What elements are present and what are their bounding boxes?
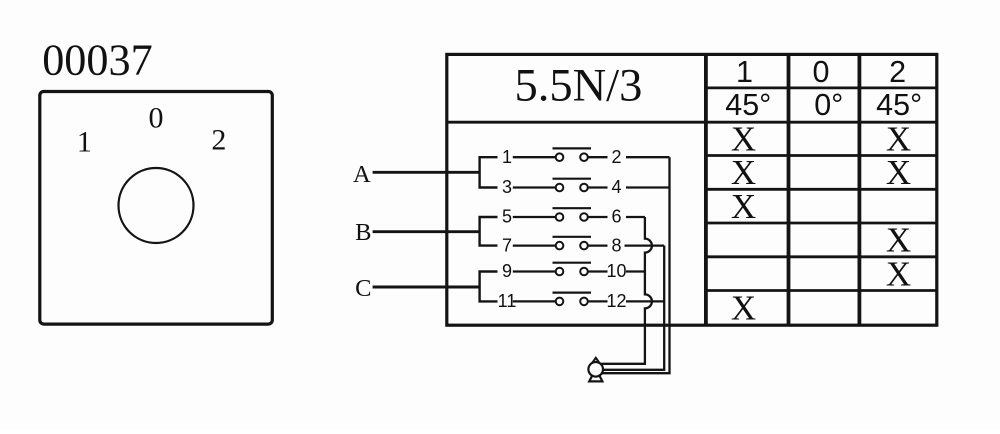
svg-text:12: 12 — [606, 291, 626, 311]
svg-text:2: 2 — [611, 147, 621, 167]
contact row 4 wires — [513, 237, 664, 246]
svg-text:C: C — [355, 275, 371, 302]
svg-text:2: 2 — [889, 55, 906, 89]
contact circles row 5 — [556, 268, 588, 276]
svg-text:10: 10 — [606, 261, 626, 281]
table column line between 0 and 2 — [858, 54, 862, 325]
svg-text:4: 4 — [611, 177, 621, 197]
bracket phase C to terminals 9 and 11 — [480, 272, 498, 302]
table header bottom line — [447, 121, 937, 124]
contact row 1 wires — [513, 148, 670, 157]
phase A feed wire — [373, 171, 480, 174]
svg-text:00037: 00037 — [42, 35, 152, 84]
svg-text:X: X — [731, 289, 756, 328]
contact circles row 6 — [556, 298, 588, 306]
contact row 2 wires — [513, 179, 670, 188]
bracket phase A to terminals 1 and 3 — [480, 157, 498, 187]
svg-text:5: 5 — [502, 207, 512, 227]
svg-text:X: X — [886, 254, 911, 293]
contact row 5 wires — [513, 263, 645, 272]
svg-text:45°: 45° — [876, 88, 922, 122]
contact circles row 1 — [556, 153, 588, 161]
svg-text:5.5N/3: 5.5N/3 — [514, 61, 642, 112]
table row line 1 — [706, 154, 937, 157]
svg-text:1: 1 — [502, 147, 512, 167]
table row line 4 — [706, 255, 937, 258]
svg-text:A: A — [353, 161, 371, 188]
table row line 5 — [706, 289, 937, 292]
contact row 3 wires — [513, 208, 645, 217]
svg-text:1: 1 — [77, 125, 92, 158]
bracket phase B to terminals 5 and 7 — [480, 217, 498, 246]
svg-text:X: X — [886, 153, 911, 192]
svg-text:9: 9 — [502, 261, 512, 281]
front panel square outline — [40, 92, 272, 325]
svg-text:0: 0 — [149, 102, 164, 135]
svg-text:1: 1 — [736, 55, 753, 89]
svg-text:45°: 45° — [725, 88, 771, 122]
phase C feed wire — [373, 286, 480, 289]
switch table outer border — [447, 54, 937, 325]
output bus from terminals 6 and 10 with hops over rows 8 and 12 — [596, 217, 652, 364]
svg-text:3: 3 — [502, 177, 512, 197]
knob circle — [119, 168, 194, 243]
svg-text:X: X — [731, 187, 756, 226]
svg-text:8: 8 — [611, 235, 621, 255]
svg-text:6: 6 — [611, 207, 621, 227]
table column line between 1 and 0 — [787, 54, 791, 325]
svg-text:B: B — [355, 219, 371, 246]
output bus from terminals 2 and 4 — [596, 157, 670, 373]
contact circles row 3 — [556, 213, 588, 221]
motor body circle — [588, 362, 603, 377]
motor base — [589, 375, 602, 381]
svg-text:7: 7 — [502, 235, 512, 255]
contact circles row 2 — [556, 184, 588, 192]
table row line 3 — [706, 222, 937, 225]
table column line left of position 1 — [704, 54, 708, 325]
table row line 2 — [706, 188, 937, 191]
phase B feed wire — [373, 230, 480, 233]
table row line under position numbers — [706, 87, 937, 90]
contact row 6 wires — [513, 293, 664, 302]
svg-text:0: 0 — [813, 55, 830, 89]
motor pointer triangle — [593, 358, 600, 363]
contact circles row 4 — [556, 242, 588, 250]
output bus from terminals 8 and 12 — [596, 246, 665, 370]
svg-text:2: 2 — [211, 124, 226, 157]
svg-text:0°: 0° — [814, 88, 843, 122]
